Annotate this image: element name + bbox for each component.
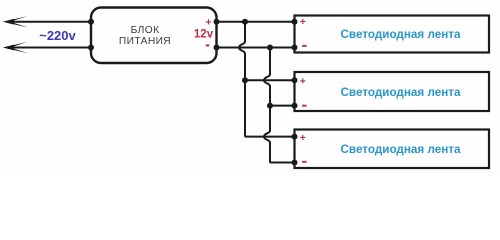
svg-text:+: + (300, 132, 306, 144)
junction: N at U1 left (88, 45, 94, 51)
junction: +12V bus at strip2 tap (242, 77, 248, 83)
junction: strip3 - terminal (292, 160, 298, 166)
wire: +12V to strip 2 (245, 79, 295, 81)
svg-text:Светодиодная лента: Светодиодная лента (340, 28, 461, 41)
svg-text:БЛОК: БЛОК (131, 25, 160, 36)
label strip1 - (302, 45, 306, 47)
svg-text:12v: 12v (194, 29, 214, 41)
wire: +12V bus lower + elbow to strip 3 (245, 80, 295, 136)
svg-text:Светодиодная лента: Светодиодная лента (340, 86, 461, 99)
svg-text:+: + (300, 76, 306, 88)
junction: 0V bus tap (267, 45, 273, 51)
LED strip 3 box (295, 130, 490, 169)
LED strip 1 box (295, 16, 490, 53)
wire: 0V to strip 2 (270, 105, 295, 107)
power supply U1 box (91, 8, 217, 64)
wire: +12V from U1 to strip 1 (217, 21, 295, 23)
junction: L at U1 left (88, 19, 94, 25)
junction: 0V bus at strip2 tap (267, 103, 273, 109)
label strip3 - (302, 161, 306, 163)
svg-text:+: + (300, 16, 306, 28)
LED strip 2 box (295, 72, 490, 111)
label strip2 - (302, 105, 306, 107)
svg-text:Светодиодная лента: Светодиодная лента (340, 143, 461, 156)
junction: U1 + output (214, 19, 220, 25)
junction: U1 - output (214, 45, 220, 51)
wire: 0V from U1 to strip 1 (217, 47, 295, 49)
svg-text:ПИТАНИЯ: ПИТАНИЯ (119, 36, 171, 47)
wire: AC line L (top) (10, 21, 91, 23)
junction: +12V bus tap (242, 19, 248, 25)
AC arrow 2 (left-pointing) (3, 42, 28, 53)
svg-text:+: + (205, 16, 211, 28)
junction: strip2 + terminal (292, 77, 298, 83)
junction: strip1 - terminal (292, 45, 298, 51)
wire: AC line N (bottom) (10, 47, 91, 49)
wire: +12V bus vertical upper (with hop over 0V wire) (239, 22, 245, 80)
svg-text:~220v: ~220v (39, 28, 76, 43)
wire: 0V bus lower (hop over strip3 + wire) + elbow to strip 3 (264, 106, 295, 163)
wire: 0V bus vertical upper (with hop over strip2 + wire) (264, 48, 270, 106)
AC arrow 1 (left-pointing) (3, 16, 28, 27)
junction: strip2 - terminal (292, 103, 298, 109)
label U1 - terminal (206, 44, 210, 46)
junction: strip1 + terminal (292, 19, 298, 25)
junction: strip3 + terminal (292, 134, 298, 140)
